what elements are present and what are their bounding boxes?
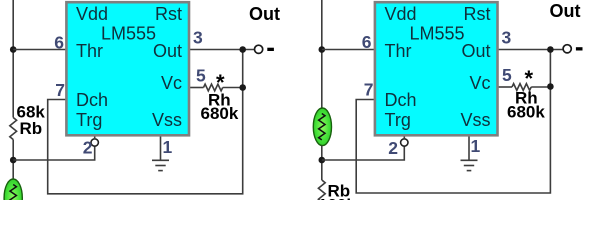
wire: Dch loop (pin7 down, bottom rail, right riser), circuit 1 xyxy=(48,50,243,194)
wire: pin3 output wire, circuit 2 xyxy=(499,49,564,51)
svg-text:5: 5 xyxy=(502,65,512,85)
output terminal circle, circuit 1 xyxy=(255,45,263,53)
ground, circuit 1 xyxy=(152,137,169,171)
node: output junction, circuit 2 xyxy=(547,46,554,53)
svg-text:2: 2 xyxy=(83,138,93,158)
pin 2 terminal circle, circuit 1 xyxy=(91,139,98,146)
svg-text:Rb: Rb xyxy=(20,119,43,138)
IC U2 LM555, circuit 2 xyxy=(375,2,498,135)
svg-text:Trg: Trg xyxy=(76,110,102,130)
svg-text:Vc: Vc xyxy=(469,73,490,93)
wire: pin 2 stub, circuit 1 xyxy=(94,137,96,140)
svg-text:2: 2 xyxy=(388,138,398,158)
svg-text:Rst: Rst xyxy=(155,4,182,24)
svg-text:LM555: LM555 xyxy=(101,24,156,44)
svg-text:5: 5 xyxy=(196,66,206,86)
wire: Rh to riser, circuit 2 xyxy=(531,86,547,88)
svg-text:Out: Out xyxy=(249,4,280,24)
node: Vc junction, circuit 2 xyxy=(547,83,554,90)
output terminal circle, circuit 2 xyxy=(563,45,571,53)
wire: rail between LDR2 and Rb, circuit 2 xyxy=(321,146,323,180)
svg-text:Vdd: Vdd xyxy=(76,4,108,24)
svg-text:Dch: Dch xyxy=(76,90,108,110)
svg-text:Thr: Thr xyxy=(385,41,412,61)
svg-text:Out: Out xyxy=(461,41,490,61)
svg-text:Out: Out xyxy=(153,41,182,61)
svg-text:6: 6 xyxy=(54,32,64,52)
wire: pin 2 stub, circuit 2 xyxy=(403,137,405,139)
svg-text:Rst: Rst xyxy=(464,4,491,24)
ground, circuit 2 xyxy=(461,137,478,171)
IC U1 LM555, circuit 1 xyxy=(66,2,189,135)
node: Trg junction, circuit 1 xyxy=(10,157,17,164)
node: output junction, circuit 1 xyxy=(239,46,246,53)
wire: Rh to riser, circuit 1 xyxy=(223,87,240,89)
svg-text:Vc: Vc xyxy=(161,73,182,93)
svg-text:Vss: Vss xyxy=(152,110,182,130)
svg-text:LM555: LM555 xyxy=(409,24,464,44)
svg-text:Trg: Trg xyxy=(385,110,411,130)
svg-text:1: 1 xyxy=(163,137,173,157)
svg-text:3: 3 xyxy=(502,28,512,48)
svg-text:Dch: Dch xyxy=(385,90,417,110)
svg-text:680k: 680k xyxy=(507,103,545,122)
svg-text:Thr: Thr xyxy=(76,41,103,61)
wire: pin6 Thr wire, circuit 2 xyxy=(322,49,375,51)
resistor Rh (680k) zigzag, circuit 2 xyxy=(512,84,531,91)
svg-text:1: 1 xyxy=(471,136,481,156)
svg-text:7: 7 xyxy=(55,80,65,100)
node: Thr junction, circuit 2 xyxy=(319,46,326,53)
node: Vc junction, circuit 1 xyxy=(239,84,246,91)
resistor Rh (680k) zigzag, circuit 1 xyxy=(204,84,223,91)
node: Trg junction, circuit 2 xyxy=(319,157,326,164)
wire: Trg wire to pin 2, circuit 2 xyxy=(322,146,405,160)
wire: Dch loop (pin7 down, bottom rail, right riser), circuit 2 xyxy=(356,50,550,194)
photoresistor LDR2, circuit 2 xyxy=(313,108,331,146)
svg-text:7: 7 xyxy=(364,80,374,100)
svg-text:680k: 680k xyxy=(201,104,239,123)
wire: pin5 Vc wire, circuit 1 xyxy=(190,87,204,89)
svg-text:3: 3 xyxy=(193,28,203,48)
wire: left rail upper segment (circuit 1) xyxy=(12,0,14,118)
output dash, circuit 2 xyxy=(576,47,583,50)
svg-text:Vss: Vss xyxy=(460,110,490,130)
wire: pin5 Vc wire, circuit 2 xyxy=(499,86,513,88)
svg-text:Out: Out xyxy=(550,1,581,21)
svg-text:6: 6 xyxy=(362,32,372,52)
resistor Rb (68k) zigzag, circuit 1 xyxy=(10,118,17,140)
resistor Rb zigzag, circuit 2 xyxy=(318,180,325,202)
svg-text:*: * xyxy=(525,66,534,91)
wire: pin6 Thr wire, circuit 1 xyxy=(13,49,66,51)
photoresistor LDR1, circuit 1 xyxy=(4,179,22,217)
wire: left rail upper segment (circuit 2) xyxy=(321,0,323,109)
wire: left rail below Rb, circuit 1 xyxy=(12,140,14,181)
wire: pin3 output wire, circuit 1 xyxy=(190,49,254,51)
svg-text:Vdd: Vdd xyxy=(385,4,417,24)
node: Thr junction, circuit 1 xyxy=(10,46,17,53)
pin 2 terminal circle, circuit 2 xyxy=(401,139,408,146)
output dash, circuit 1 xyxy=(267,48,274,51)
svg-text:100k: 100k xyxy=(318,196,356,201)
wire: Trg wire to pin 2, circuit 1 xyxy=(13,147,95,161)
